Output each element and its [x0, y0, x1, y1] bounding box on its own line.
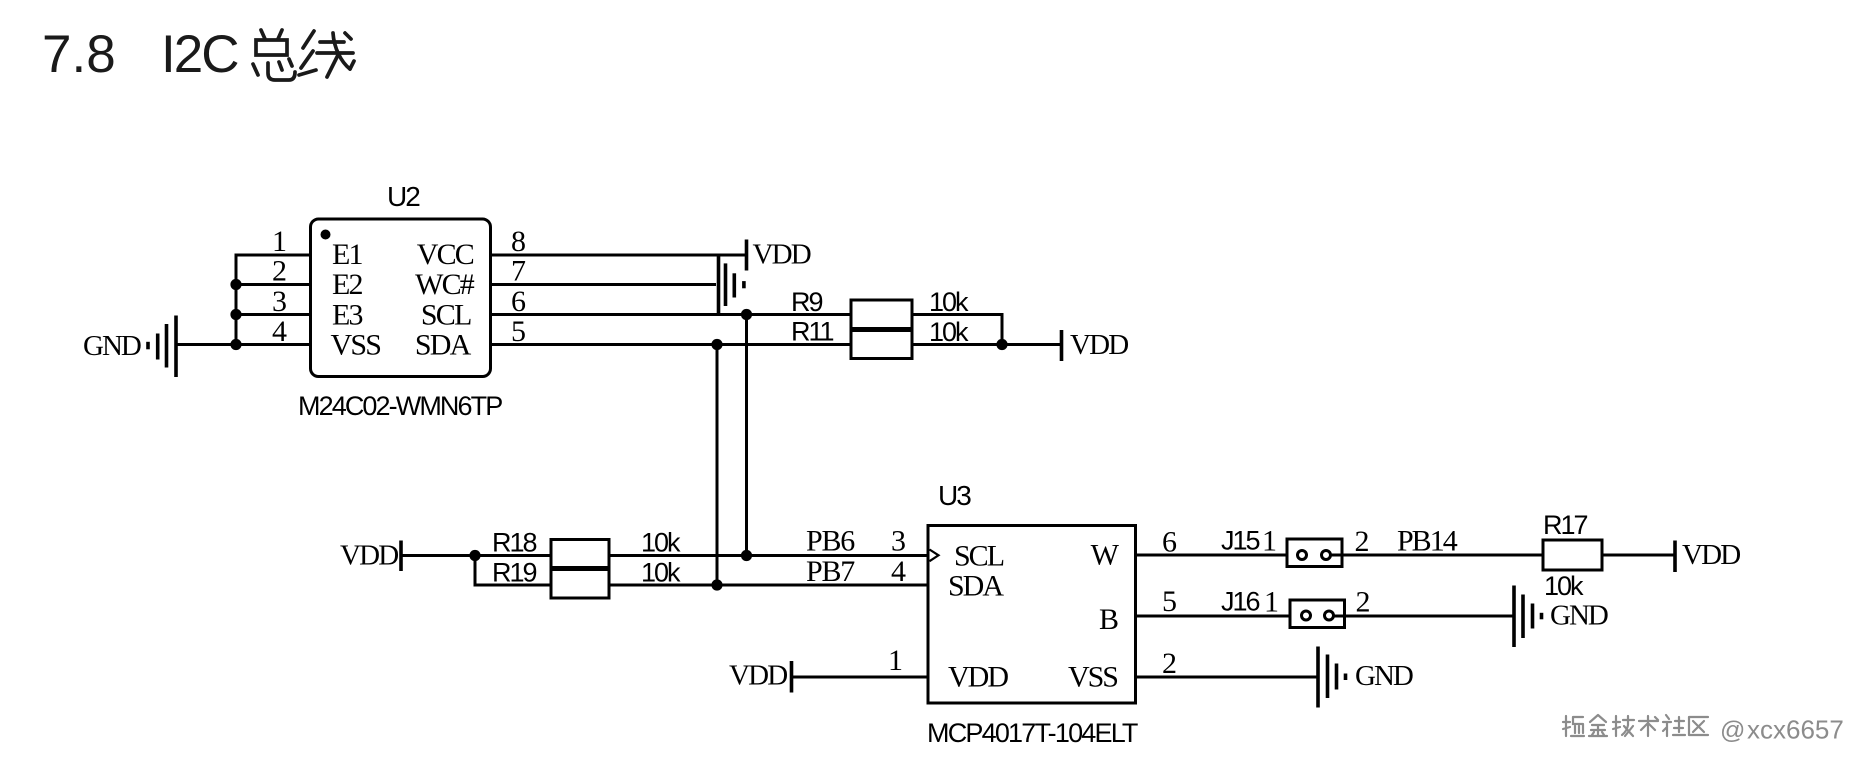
wire U2 pin8 VCC to VDD — [491, 254, 747, 257]
svg-text:R17: R17 — [1543, 510, 1588, 540]
svg-text:10k: 10k — [641, 558, 681, 588]
svg-text:1: 1 — [888, 644, 903, 677]
junction PB6 — [741, 550, 752, 561]
svg-text:GND: GND — [1550, 600, 1608, 632]
wire U3 VSS to GND — [1136, 676, 1317, 679]
ground symbol at J16 — [1514, 586, 1542, 648]
VDD power bar at U2 VCC — [745, 240, 749, 271]
svg-text:5: 5 — [1162, 585, 1177, 618]
IC U3 body — [928, 526, 1136, 704]
svg-text:WC#: WC# — [415, 268, 475, 301]
svg-text:R19: R19 — [492, 558, 537, 588]
svg-text:W: W — [1091, 539, 1120, 572]
svg-text:PB14: PB14 — [1397, 525, 1458, 558]
svg-text:GND: GND — [83, 330, 141, 362]
svg-text:6: 6 — [1162, 526, 1177, 559]
svg-text:GND: GND — [1355, 660, 1413, 692]
resistor pair R18 R19 — [551, 540, 609, 599]
wire U2 pin2 — [236, 283, 311, 286]
junction SDA tap — [711, 339, 722, 350]
title hanzi 线 — [299, 31, 354, 77]
wire U2 pin6 SCL to R9 — [491, 313, 852, 316]
svg-text:E3: E3 — [332, 299, 363, 332]
svg-text:2: 2 — [1355, 525, 1370, 558]
jumper J15 body — [1287, 539, 1342, 567]
junction PB7 — [711, 579, 722, 590]
svg-text:10k: 10k — [929, 317, 969, 347]
wire U2 pin5 SDA to R11 — [491, 343, 852, 346]
wire U3 B to J16 — [1136, 615, 1302, 618]
VDD power bar lower left — [399, 541, 403, 572]
U2 left pin numbers 1 2 3 4 — [272, 225, 287, 348]
page title 7.8 I2C — [42, 25, 238, 84]
J15 pad 2 circle — [1322, 551, 1331, 560]
junction on bus at pin2 — [230, 279, 241, 290]
ground symbol at U2 VSS — [148, 316, 176, 378]
svg-text:J16: J16 — [1221, 587, 1260, 617]
svg-text:VDD: VDD — [340, 540, 398, 572]
svg-text:PB7: PB7 — [806, 555, 855, 588]
svg-text:M24C02-WMN6TP: M24C02-WMN6TP — [298, 391, 502, 421]
wire VDD to U3 pin1 — [792, 676, 929, 679]
resistor R17 — [1543, 540, 1602, 570]
svg-text:@: @ — [1720, 717, 1745, 745]
wire SCL vertical drop — [745, 315, 748, 556]
junction on bus at pin3 — [230, 309, 241, 320]
wire U2 pin3 — [236, 313, 311, 316]
wire R19 to U3 SDA — [609, 584, 928, 587]
svg-text:10k: 10k — [1544, 571, 1584, 601]
wire VDD to R18 — [401, 554, 551, 557]
svg-text:R9: R9 — [791, 287, 822, 317]
U2 right pin numbers 8 7 6 5 — [511, 225, 526, 348]
svg-text:SDA: SDA — [948, 570, 1004, 603]
J16 pad 2 circle — [1325, 611, 1334, 620]
svg-text:U2: U2 — [387, 181, 420, 212]
svg-text:E1: E1 — [332, 238, 363, 271]
U2 pin-1 orientation dot — [321, 230, 331, 240]
svg-text:VDD: VDD — [948, 661, 1008, 694]
svg-text:1: 1 — [1264, 586, 1279, 619]
svg-text:U3: U3 — [938, 480, 971, 511]
svg-text:SCL: SCL — [954, 540, 1004, 573]
svg-text:R18: R18 — [492, 528, 537, 558]
svg-text:VDD: VDD — [729, 660, 787, 692]
junction SCL tap — [741, 309, 752, 320]
svg-text:2: 2 — [1356, 586, 1371, 619]
svg-text:4: 4 — [891, 555, 906, 588]
VDD power bar right of R11 — [1060, 330, 1064, 361]
U2 pin names — [331, 238, 475, 362]
wire SDA vertical drop — [716, 345, 719, 586]
junction VDD feed — [469, 550, 480, 561]
svg-text:SCL: SCL — [421, 299, 471, 332]
jumper J16 body — [1290, 600, 1345, 628]
svg-text:2: 2 — [272, 255, 287, 288]
junction on bus at pin4 — [230, 339, 241, 350]
svg-text:J15: J15 — [1221, 526, 1260, 556]
svg-text:SDA: SDA — [415, 329, 472, 362]
svg-text:1: 1 — [1262, 525, 1277, 558]
wire R17 to VDD — [1602, 554, 1675, 557]
U3 pin names — [948, 539, 1120, 694]
svg-text:R11: R11 — [791, 317, 834, 347]
IC U2 body — [311, 219, 491, 377]
svg-text:3: 3 — [891, 525, 906, 558]
wire U3 W to J15 — [1136, 554, 1298, 557]
svg-text:10k: 10k — [641, 528, 681, 558]
svg-text:8: 8 — [511, 225, 526, 258]
svg-text:PB6: PB6 — [806, 525, 855, 558]
wire R9 right to merge — [912, 315, 1002, 345]
title hanzi 总 — [253, 30, 295, 80]
U3 clock marker on SCL — [930, 550, 939, 562]
VDD power bar U3 pin1 — [790, 661, 794, 693]
wire R18 to U3 SCL — [609, 554, 928, 557]
svg-text:10k: 10k — [929, 287, 969, 317]
junction R9 R11 merge — [996, 339, 1007, 350]
wire U2 pin7 WC# — [491, 283, 717, 286]
ground symbol at U3 VSS — [1318, 647, 1346, 708]
J15 pad 1 circle — [1298, 551, 1307, 560]
ground symbol at U2 WC# — [719, 254, 744, 315]
svg-text:E2: E2 — [332, 268, 363, 301]
watermark 掘金技术社区 @ xcx6657 — [1563, 715, 1844, 745]
svg-text:VSS: VSS — [1068, 661, 1117, 694]
svg-text:B: B — [1099, 603, 1118, 636]
svg-text:VDD: VDD — [1070, 329, 1128, 361]
wire U2 pin1 and left bus — [236, 255, 311, 345]
J16 pad 1 circle — [1302, 611, 1311, 620]
svg-text:MCP4017T-104ELT: MCP4017T-104ELT — [927, 718, 1138, 748]
svg-text:VDD: VDD — [1682, 539, 1740, 571]
svg-text:7: 7 — [511, 255, 526, 288]
svg-text:7.8: 7.8 — [42, 25, 116, 84]
svg-text:VDD: VDD — [753, 239, 811, 271]
wire R11 right to VDD — [912, 343, 1062, 346]
svg-text:xcx6657: xcx6657 — [1747, 715, 1844, 745]
svg-text:1: 1 — [272, 225, 287, 258]
wire VDD feed down to R19 — [475, 556, 551, 586]
VDD power bar right — [1673, 541, 1677, 573]
wire U2 pin4 to GND — [176, 343, 311, 346]
svg-text:2: 2 — [1162, 647, 1177, 680]
wire J15 to R17 — [1331, 554, 1544, 557]
svg-text:VCC: VCC — [417, 238, 474, 271]
wire J16 to GND — [1334, 615, 1513, 618]
svg-text:VSS: VSS — [331, 329, 381, 362]
resistor pair R9 R11 — [851, 300, 912, 359]
svg-text:I2C: I2C — [161, 25, 238, 84]
